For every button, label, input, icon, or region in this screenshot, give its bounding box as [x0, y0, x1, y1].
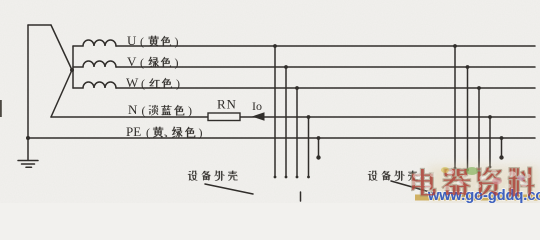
label equipment enclosure 2 — [368, 171, 377, 181]
wire: load-2 tap from U line — [454, 46, 456, 168]
leader line to load 2 — [391, 181, 444, 196]
wire: load-1 tap from U line — [274, 46, 276, 177]
label W (red) — [126, 75, 180, 91]
watermark highlight speckles — [413, 169, 528, 188]
label PE (yellow-green) — [126, 124, 203, 140]
wire: neutral line N right of resistor — [240, 116, 535, 118]
watermark background wash — [428, 166, 540, 202]
node: transformer star point — [70, 68, 74, 72]
watermark colored blobs — [441, 167, 525, 184]
wire: load-2 tap from W line — [478, 88, 480, 172]
label equipment enclosure 1 — [188, 171, 197, 181]
node: junction on V line (load 1) — [284, 65, 288, 69]
wire: upper diagonal into star point — [51, 25, 72, 70]
label U (yellow) — [127, 33, 179, 49]
node: junction on U line (load 1) — [273, 44, 277, 48]
wire: load-2 tap from N line — [489, 117, 491, 167]
wire: service trunk vertical — [27, 25, 29, 160]
watermark text outline layer — [412, 167, 534, 197]
wire: lower diagonal from star point to N line — [51, 70, 72, 117]
node: junction on PE line (load 1) — [317, 136, 321, 140]
label V (green) — [127, 54, 179, 70]
wire: load-1 tap from V line — [285, 67, 287, 177]
winding L3 (phase W secondary coil) — [73, 82, 116, 88]
node: junction on U line (load 2) — [453, 44, 457, 48]
node: junction on PE line (load 2) — [500, 136, 504, 140]
left edge scan smudge — [0, 100, 2, 117]
node: junction on W line (load 2) — [477, 86, 481, 90]
node: junction on W line (load 1) — [295, 86, 299, 90]
winding L1 (phase U secondary coil) — [73, 40, 116, 46]
wire: load-1 tap from PE line — [318, 138, 320, 157]
wire: winding bus vertical — [72, 46, 74, 88]
watermark stroke breakup blobs — [410, 170, 531, 191]
label N (light blue) — [128, 102, 192, 118]
wire: trunk top horizontal — [28, 24, 51, 26]
winding L2 (phase V secondary coil) — [73, 61, 116, 67]
wire: phase line U — [116, 45, 535, 47]
ground — [18, 161, 38, 168]
resistor RN — [208, 113, 240, 121]
wire: neutral line N left of resistor — [51, 116, 208, 118]
wire: load-1 tap from N line — [308, 117, 310, 177]
wire: load-2 tap from PE line — [501, 138, 503, 157]
node: junction on N line (load 1) — [307, 115, 311, 119]
wire: protective earth line PE — [28, 137, 535, 139]
wire: load-2 tap from V line — [467, 67, 469, 170]
wire: phase line W — [116, 87, 535, 89]
watermark underline bar — [415, 195, 540, 201]
wire: stub below load 1 — [300, 192, 302, 201]
node: junction on V line (load 2) — [466, 65, 470, 69]
node: PE tap on trunk — [26, 136, 30, 140]
node: junction on N line (load 2) — [488, 115, 492, 119]
leader line to load 1 — [205, 184, 253, 194]
wire: phase line V — [116, 66, 535, 68]
current arrow Io on N line — [252, 112, 265, 121]
wire: load-1 tap from W line — [296, 88, 298, 177]
